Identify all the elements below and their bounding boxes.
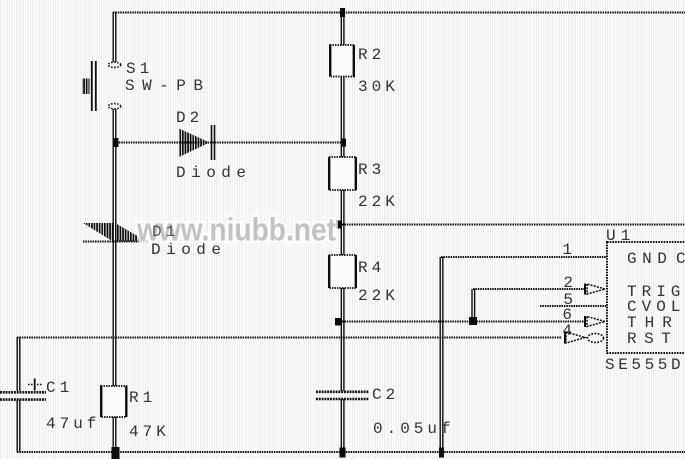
pin label CVOL xyxy=(627,298,685,316)
svg-text:R4: R4 xyxy=(358,259,385,277)
label R2 xyxy=(358,46,385,64)
svg-text:S1: S1 xyxy=(126,60,153,78)
svg-text:30K: 30K xyxy=(358,78,399,96)
pin label THR xyxy=(627,314,680,332)
svg-text:47uf: 47uf xyxy=(46,415,100,433)
label 47K xyxy=(129,423,170,441)
label R4 xyxy=(358,259,385,277)
switch S1 xyxy=(82,61,121,111)
svg-text:U1: U1 xyxy=(606,227,635,245)
label Diode (D1) xyxy=(151,241,227,259)
label S1 xyxy=(126,60,153,78)
pin number 4 xyxy=(562,322,576,340)
wire vertical net A upper (rail to S1) xyxy=(113,12,116,62)
watermark www.niubb.net xyxy=(136,212,336,248)
label R1 xyxy=(129,389,156,407)
svg-text:R2: R2 xyxy=(358,46,385,64)
svg-text:SW-PB: SW-PB xyxy=(125,77,211,95)
wire vertical net B segments xyxy=(341,12,344,452)
svg-text:22K: 22K xyxy=(358,193,399,211)
svg-text:C: C xyxy=(676,250,685,268)
pin number 2 xyxy=(563,274,577,292)
label SE555D xyxy=(605,356,684,374)
svg-text:RST: RST xyxy=(627,330,678,348)
label U1 xyxy=(606,227,635,245)
svg-text:D2: D2 xyxy=(176,109,203,127)
op-amp U1 (555 IC box) xyxy=(607,242,685,353)
resistor R1 xyxy=(101,386,127,417)
capacitor C1 xyxy=(0,379,46,400)
pin 2 arrow xyxy=(585,284,605,295)
label SW-PB xyxy=(125,77,211,95)
diode D1 xyxy=(83,223,148,242)
pin 4 arrow and inversion bubble xyxy=(565,332,604,344)
pin number 1 xyxy=(562,241,576,259)
label C2 xyxy=(372,386,399,404)
label R3 xyxy=(358,161,385,179)
svg-text:2: 2 xyxy=(563,274,577,292)
label 47uf xyxy=(46,415,100,433)
label 22K (R4) xyxy=(358,287,399,305)
svg-text:SE555D: SE555D xyxy=(605,356,684,374)
svg-text:C2: C2 xyxy=(372,386,399,404)
svg-text:Diode: Diode xyxy=(176,164,252,182)
svg-text:R3: R3 xyxy=(358,161,385,179)
svg-text:C1: C1 xyxy=(46,379,73,397)
label D1 xyxy=(152,223,179,241)
wire TRIG net (pin2) xyxy=(469,289,585,325)
wire top rail xyxy=(113,8,685,17)
wire CVOL net (pin5) xyxy=(540,305,607,307)
diode D2 xyxy=(179,125,215,160)
wire vertical net A middle (S1 to R1) xyxy=(113,109,116,386)
capacitor C2 xyxy=(316,392,369,399)
wire net C (VCC row) xyxy=(336,221,685,229)
wire vertical net A lower (R1 to rail) xyxy=(112,417,120,459)
pin label GND xyxy=(627,250,685,268)
resistor R4 xyxy=(329,255,356,288)
wire GND net (pin1) xyxy=(440,257,607,452)
label C1 xyxy=(46,379,73,397)
wire bottom rail xyxy=(17,448,685,458)
label 22K (R3) xyxy=(358,193,399,211)
svg-text:22K: 22K xyxy=(358,287,399,305)
pin 6 arrow xyxy=(585,316,605,327)
label Diode (D2) xyxy=(176,164,252,182)
svg-text:R1: R1 xyxy=(129,389,156,407)
pin number 5 xyxy=(563,291,577,309)
svg-text:47K: 47K xyxy=(129,423,170,441)
wire RST net (pin4) xyxy=(17,337,562,339)
svg-text:D1: D1 xyxy=(152,223,179,241)
pin label TRIG xyxy=(627,283,685,301)
wire D2 net horizontal xyxy=(114,138,347,147)
label 30K xyxy=(358,78,399,96)
svg-text:GND: GND xyxy=(627,250,672,268)
wire C1 branch vertical xyxy=(17,337,20,452)
label 0.05uf xyxy=(373,420,455,438)
wire THR net (pin6) xyxy=(335,318,585,326)
resistor R2 xyxy=(330,45,354,77)
pin label RST xyxy=(627,330,678,348)
svg-text:1: 1 xyxy=(562,241,576,259)
resistor R3 xyxy=(329,157,356,190)
label D2 xyxy=(176,109,203,127)
pin number 6 xyxy=(562,306,576,324)
